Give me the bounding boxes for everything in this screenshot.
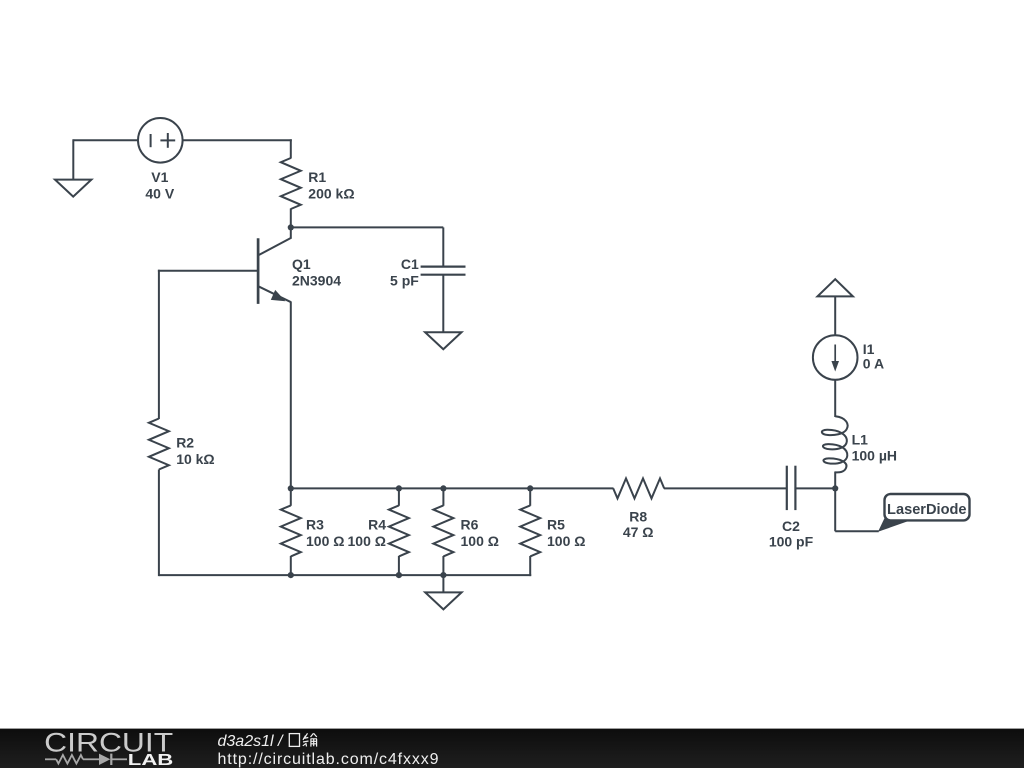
svg-text:10 kΩ: 10 kΩ bbox=[176, 451, 214, 467]
svg-text:47 Ω: 47 Ω bbox=[623, 524, 654, 540]
svg-text:100 pF: 100 pF bbox=[769, 534, 814, 550]
svg-text:R8: R8 bbox=[629, 508, 647, 524]
svg-text:http://circuitlab.com/c4fxxx9: http://circuitlab.com/c4fxxx9 bbox=[218, 751, 439, 768]
svg-text:L1: L1 bbox=[852, 432, 869, 448]
svg-text:C2: C2 bbox=[782, 518, 800, 534]
svg-text:R3: R3 bbox=[306, 517, 324, 533]
svg-text:R5: R5 bbox=[547, 517, 565, 533]
svg-text:C1: C1 bbox=[401, 256, 419, 272]
svg-text:LAB: LAB bbox=[128, 752, 174, 768]
svg-text:5 pF: 5 pF bbox=[390, 272, 419, 288]
svg-text:100 Ω: 100 Ω bbox=[306, 533, 344, 549]
svg-text:100 Ω: 100 Ω bbox=[547, 533, 585, 549]
svg-text:R2: R2 bbox=[176, 435, 194, 451]
svg-text:LaserDiode: LaserDiode bbox=[887, 502, 966, 518]
svg-text:Q1: Q1 bbox=[292, 256, 311, 272]
svg-text:200 kΩ: 200 kΩ bbox=[308, 186, 354, 202]
svg-text:R4: R4 bbox=[368, 517, 386, 533]
svg-text:40 V: 40 V bbox=[145, 186, 174, 202]
svg-text:100 Ω: 100 Ω bbox=[461, 533, 499, 549]
svg-text:d3a2s1l /: d3a2s1l / bbox=[218, 733, 284, 750]
svg-text:2N3904: 2N3904 bbox=[292, 272, 341, 288]
svg-text:0 A: 0 A bbox=[863, 355, 884, 371]
svg-text:R1: R1 bbox=[308, 169, 326, 185]
svg-text:100 µH: 100 µH bbox=[852, 448, 897, 464]
svg-text:R6: R6 bbox=[461, 517, 479, 533]
svg-text:V1: V1 bbox=[151, 169, 168, 185]
svg-text:100 Ω: 100 Ω bbox=[348, 533, 386, 549]
